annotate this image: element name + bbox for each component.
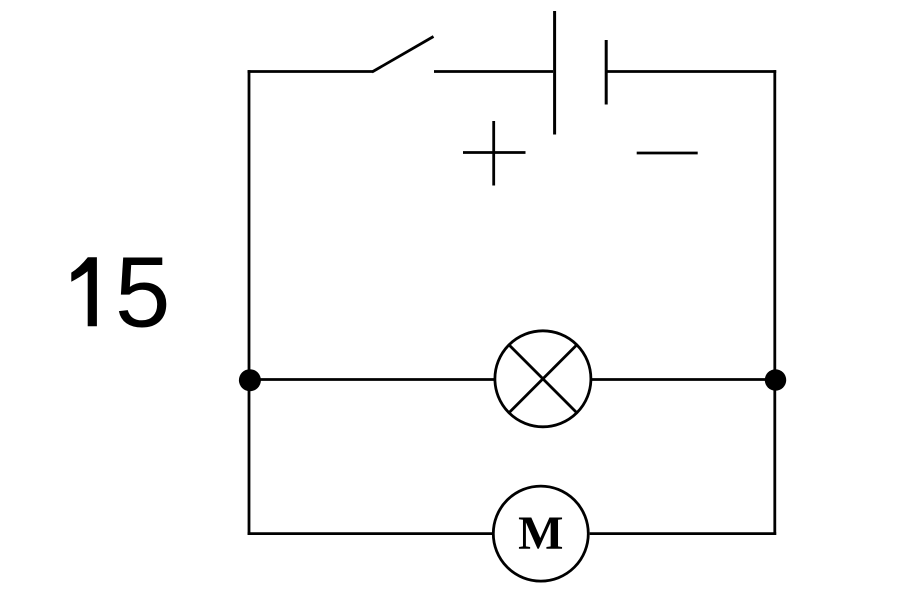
switch S1 open blade [372,37,434,73]
wire switch contact to battery positive plate [434,70,553,73]
wire bottom right (motor to corner) [590,532,777,535]
motor M1 (circle with M) [493,486,588,581]
svg-text:M: M [518,507,563,560]
node junction dot left [239,369,261,391]
battery B1 negative short plate [605,40,608,105]
lamp L1 (circle with X) [495,331,591,427]
label 15 (question number) [71,237,170,349]
wire middle branch left (dot to lamp) [250,378,494,381]
wire battery to top-right corner [607,70,776,73]
plus polarity label [463,121,526,186]
minus polarity label [637,152,698,155]
wire right vertical [773,70,776,535]
node junction dot right [765,369,786,390]
wire left vertical [248,70,251,535]
wire top-left horizontal (corner to switch pivot) [248,70,373,73]
battery B1 positive long plate [553,11,556,135]
svg-text:5: 5 [115,237,171,349]
wire middle branch right (lamp to dot) [592,378,775,381]
wire bottom left (corner to motor) [248,532,493,535]
